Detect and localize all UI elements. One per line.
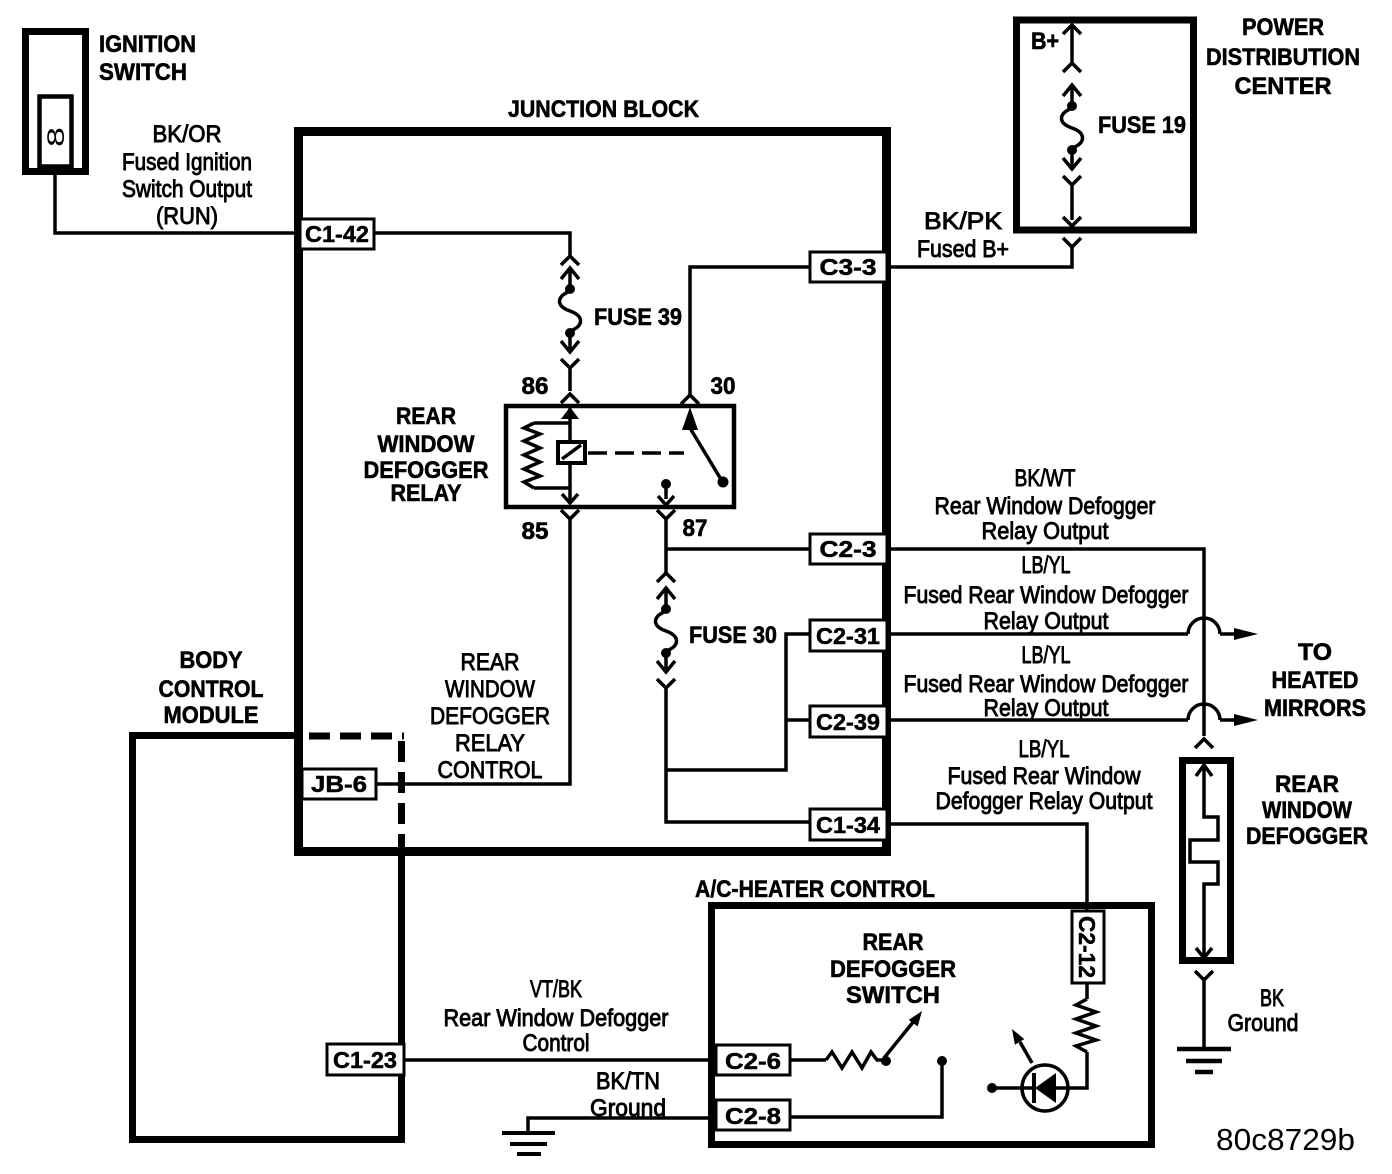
- svg-text:SWITCH: SWITCH: [99, 59, 187, 86]
- svg-text:BK/PK: BK/PK: [924, 208, 1002, 235]
- svg-text:BK/OR: BK/OR: [153, 121, 222, 148]
- svg-text:30: 30: [711, 373, 736, 400]
- svg-text:(RUN): (RUN): [156, 203, 218, 230]
- svg-text:Relay Output: Relay Output: [982, 518, 1109, 545]
- svg-text:BK/WT: BK/WT: [1015, 465, 1076, 492]
- svg-text:A/C-HEATER CONTROL: A/C-HEATER CONTROL: [695, 876, 935, 903]
- svg-text:FUSE 30: FUSE 30: [689, 622, 777, 649]
- svg-text:Relay Output: Relay Output: [984, 695, 1109, 722]
- svg-text:DEFOGGER: DEFOGGER: [430, 703, 550, 730]
- svg-text:JUNCTION BLOCK: JUNCTION BLOCK: [508, 96, 700, 123]
- svg-text:Ground: Ground: [590, 1095, 666, 1122]
- svg-text:B+: B+: [1031, 28, 1059, 55]
- svg-text:Fused Rear Window Defogger: Fused Rear Window Defogger: [904, 582, 1189, 609]
- svg-text:C2-12: C2-12: [1074, 916, 1100, 978]
- svg-text:Rear Window Defogger: Rear Window Defogger: [444, 1005, 669, 1032]
- svg-text:TO: TO: [1298, 639, 1332, 666]
- svg-text:C2-3: C2-3: [820, 536, 877, 562]
- svg-text:CONTROL: CONTROL: [159, 676, 264, 703]
- svg-text:VT/BK: VT/BK: [530, 976, 582, 1003]
- svg-text:WINDOW: WINDOW: [1262, 797, 1352, 824]
- svg-text:80c8729b: 80c8729b: [1216, 1122, 1355, 1157]
- svg-text:Fused Rear Window Defogger: Fused Rear Window Defogger: [904, 671, 1189, 698]
- svg-text:LB/YL: LB/YL: [1022, 552, 1071, 579]
- svg-text:DEFOGGER: DEFOGGER: [1246, 823, 1368, 850]
- svg-text:WINDOW: WINDOW: [378, 431, 475, 458]
- svg-text:C2-39: C2-39: [816, 709, 880, 735]
- svg-text:CENTER: CENTER: [1235, 73, 1332, 100]
- svg-text:Defogger Relay Output: Defogger Relay Output: [936, 788, 1153, 815]
- svg-text:86: 86: [522, 373, 549, 400]
- svg-text:JB-6: JB-6: [311, 771, 367, 797]
- svg-text:WINDOW: WINDOW: [445, 676, 535, 703]
- svg-text:Fused Ignition: Fused Ignition: [122, 149, 252, 176]
- svg-text:FUSE 39: FUSE 39: [594, 304, 682, 331]
- svg-text:C1-34: C1-34: [816, 812, 880, 838]
- svg-text:REAR: REAR: [461, 649, 520, 676]
- svg-text:Ground: Ground: [1228, 1010, 1299, 1037]
- svg-text:LB/YL: LB/YL: [1022, 642, 1071, 669]
- svg-text:87: 87: [683, 515, 708, 542]
- svg-text:MIRRORS: MIRRORS: [1264, 695, 1366, 722]
- svg-text:Rear Window Defogger: Rear Window Defogger: [935, 493, 1156, 520]
- svg-text:MODULE: MODULE: [164, 702, 259, 729]
- svg-text:BODY: BODY: [180, 647, 243, 674]
- svg-text:8: 8: [43, 127, 70, 147]
- svg-text:C1-42: C1-42: [305, 221, 369, 247]
- svg-text:Switch Output: Switch Output: [122, 176, 252, 203]
- svg-text:IGNITION: IGNITION: [99, 31, 196, 58]
- svg-text:RELAY: RELAY: [391, 480, 462, 507]
- svg-text:C2-31: C2-31: [816, 623, 880, 649]
- svg-text:FUSE 19: FUSE 19: [1098, 112, 1186, 139]
- svg-text:C3-3: C3-3: [820, 254, 877, 280]
- svg-text:DISTRIBUTION: DISTRIBUTION: [1206, 44, 1360, 71]
- svg-text:Fused Rear Window: Fused Rear Window: [948, 763, 1142, 790]
- svg-text:Relay Output: Relay Output: [984, 608, 1109, 635]
- svg-text:C1-23: C1-23: [333, 1047, 397, 1073]
- svg-text:85: 85: [522, 518, 549, 545]
- svg-text:C2-6: C2-6: [725, 1048, 781, 1074]
- svg-text:DEFOGGER: DEFOGGER: [830, 956, 956, 983]
- svg-text:LB/YL: LB/YL: [1019, 736, 1070, 763]
- svg-text:REAR: REAR: [1275, 771, 1339, 798]
- svg-text:HEATED: HEATED: [1272, 667, 1359, 694]
- svg-text:BK: BK: [1260, 985, 1284, 1012]
- svg-text:SWITCH: SWITCH: [846, 982, 940, 1009]
- svg-text:Control: Control: [523, 1030, 590, 1057]
- svg-text:REAR: REAR: [863, 929, 924, 956]
- svg-text:Fused B+: Fused B+: [917, 236, 1009, 263]
- svg-text:POWER: POWER: [1242, 14, 1324, 41]
- svg-text:C2-8: C2-8: [725, 1103, 781, 1129]
- svg-text:REAR: REAR: [396, 403, 456, 430]
- svg-text:RELAY: RELAY: [455, 730, 525, 757]
- svg-text:BK/TN: BK/TN: [596, 1068, 660, 1095]
- svg-text:CONTROL: CONTROL: [438, 757, 543, 784]
